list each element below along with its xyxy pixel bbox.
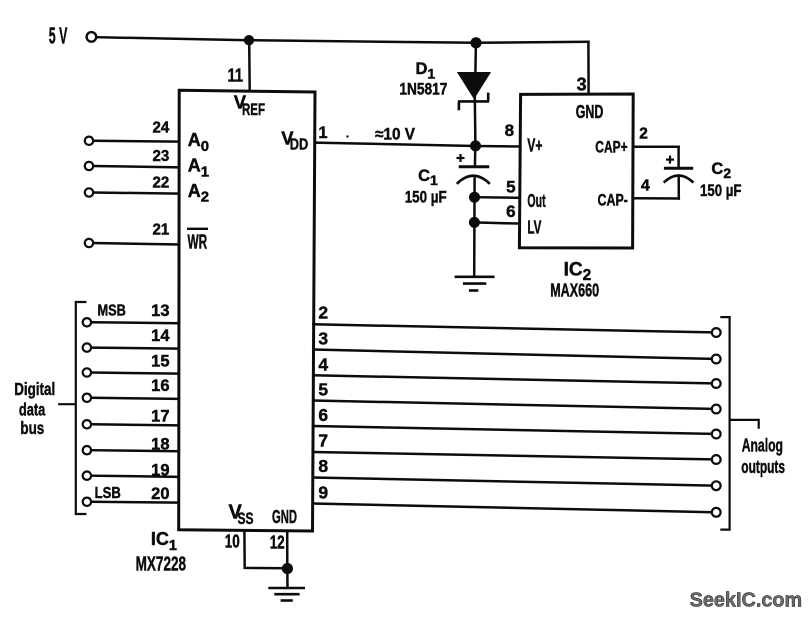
wire CAP- pin4 (633, 197, 679, 200)
svg-text:V+: V+ (527, 135, 542, 155)
junction dot 5V/pin11 (244, 35, 254, 45)
wire data bit pin15 (91, 373, 178, 374)
svg-text:2: 2 (318, 303, 328, 323)
svg-text:13: 13 (151, 302, 169, 320)
svg-text:Digital: Digital (14, 379, 55, 399)
svg-text:bus: bus (20, 418, 44, 438)
svg-text:5 V: 5 V (49, 23, 68, 49)
wire LV pin6 (474, 222, 519, 223)
terminal out4 (712, 379, 721, 388)
junction dot V+ node (470, 140, 481, 151)
wire 5V rail (97, 37, 589, 43)
wire data bit pin14 (91, 348, 178, 349)
svg-text:16: 16 (151, 377, 169, 395)
IC2 MAX660 body (519, 94, 633, 248)
svg-text:2: 2 (639, 125, 648, 142)
bracket digital bus (58, 302, 86, 514)
svg-text:14: 14 (151, 327, 170, 345)
wire input A0 pin24 (93, 140, 179, 143)
svg-text:7: 7 (318, 430, 328, 450)
svg-text:outputs: outputs (741, 457, 785, 477)
svg-text:DD: DD (290, 136, 309, 153)
wire C1 bottom lead (473, 179, 476, 277)
svg-text:150 µF: 150 µF (700, 182, 742, 200)
diode D1 schottky bar (458, 93, 489, 111)
terminal bit16 (83, 394, 91, 402)
wire VSS pin10 (244, 531, 287, 568)
svg-text:5: 5 (318, 380, 328, 400)
diode D1 triangle (457, 72, 491, 99)
terminal bit13 (83, 318, 91, 326)
ground under IC1 pin12 (268, 588, 305, 601)
svg-text:REF: REF (242, 101, 265, 119)
svg-text:1N5817: 1N5817 (399, 80, 447, 98)
terminal A0 (85, 137, 93, 145)
C1 plus sign (457, 154, 465, 162)
wire IC2 pin3 vertical (587, 42, 590, 95)
artifact dot (346, 135, 348, 137)
svg-text:data: data (19, 400, 46, 420)
svg-text:MAX660: MAX660 (550, 280, 599, 301)
svg-text:8: 8 (318, 456, 328, 476)
wire diode cathode stem (474, 96, 477, 146)
svg-text:SS: SS (238, 510, 254, 528)
wire C2 bottom lead (677, 178, 680, 199)
svg-text:20: 20 (151, 485, 169, 503)
terminal out6 (712, 430, 721, 439)
wire output pin8 (313, 478, 712, 486)
wire data bit pin13 (91, 321, 178, 324)
wire CAP+ pin2 (633, 146, 678, 149)
terminal WR (85, 239, 93, 247)
bracket analog outputs (720, 317, 758, 529)
wire C2 top lead (677, 147, 680, 169)
terminal out3 (712, 355, 721, 364)
junction dot pin12 ground (282, 563, 293, 574)
svg-text:8: 8 (505, 121, 514, 140)
svg-text:LSB: LSB (95, 485, 121, 502)
svg-text:Out: Out (527, 191, 545, 211)
terminal out7 (712, 455, 721, 464)
wire data bit pin17 (91, 424, 178, 425)
wire data bit pin20 (91, 501, 178, 504)
junction dot 5V/diode (470, 37, 481, 48)
svg-text:10: 10 (225, 532, 240, 552)
svg-text:MSB: MSB (98, 302, 126, 319)
svg-text:1: 1 (318, 124, 327, 142)
wire IC1 pin11 vertical (248, 40, 251, 90)
svg-text:CAP-: CAP- (598, 192, 628, 210)
svg-text:5: 5 (506, 177, 515, 196)
junction dot LV node (469, 217, 480, 228)
wire output pin5 (313, 401, 712, 409)
svg-text:4: 4 (318, 354, 328, 374)
svg-text:23: 23 (153, 148, 170, 165)
svg-text:≈10 V: ≈10 V (375, 126, 415, 144)
svg-text:WR: WR (188, 232, 208, 254)
wire output pin3 (313, 350, 712, 359)
terminal bit20 (83, 498, 91, 506)
svg-text:6: 6 (506, 202, 515, 221)
capacitor C2 plates (664, 168, 694, 182)
terminal bit18 (83, 446, 91, 454)
svg-text:3: 3 (318, 329, 328, 349)
svg-text:18: 18 (151, 436, 169, 454)
terminal bit19 (83, 472, 91, 480)
wire data bit pin16 (91, 398, 178, 399)
ground under C1 (455, 277, 495, 291)
wire output pin2 (313, 324, 712, 332)
terminal A1 (85, 162, 93, 170)
wire output pin7 (313, 452, 712, 459)
C2 plus sign (666, 156, 674, 164)
wire input A1 pin23 (93, 166, 179, 167)
svg-text:150 µF: 150 µF (405, 188, 447, 206)
wire GND pin12 (286, 531, 289, 568)
wire data bit pin19 (91, 476, 178, 477)
svg-text:CAP+: CAP+ (595, 137, 627, 156)
terminal out2 (712, 328, 721, 337)
terminal bit17 (83, 420, 91, 428)
svg-text:6: 6 (318, 405, 328, 425)
terminal 5V (87, 32, 97, 42)
wire output pin6 (313, 426, 712, 434)
IC1 MX7228 body (179, 90, 315, 531)
wire diode anode stem (474, 43, 477, 73)
junction dot Out node (469, 192, 480, 203)
svg-text:21: 21 (153, 222, 170, 239)
wire input A2 pin22 (93, 193, 179, 194)
terminal out8 (712, 481, 721, 490)
terminal out5 (712, 405, 721, 414)
svg-text:12: 12 (270, 533, 285, 553)
wire data bit pin18 (91, 450, 178, 451)
svg-text:19: 19 (151, 462, 169, 480)
svg-text:MX7228: MX7228 (136, 553, 187, 575)
svg-text:17: 17 (151, 407, 169, 425)
terminal A2 (85, 188, 93, 196)
svg-text:Analog: Analog (742, 434, 783, 455)
wire output pin4 (313, 375, 712, 383)
svg-text:9: 9 (318, 483, 328, 503)
svg-text:11: 11 (228, 65, 244, 85)
svg-text:4: 4 (641, 177, 650, 194)
svg-text:3: 3 (577, 75, 587, 95)
wire Out pin5 (475, 196, 520, 199)
svg-text:24: 24 (153, 120, 170, 137)
terminal bit15 (83, 368, 91, 376)
wire output pin9 (313, 504, 712, 513)
terminal bit14 (83, 343, 91, 351)
capacitor C1 plates (457, 167, 490, 184)
svg-text:15: 15 (151, 352, 169, 370)
svg-text:SeekIC.com: SeekIC.com (690, 589, 803, 612)
svg-text:22: 22 (153, 174, 170, 191)
wire V+ pin8 / pin1 net (315, 143, 520, 147)
terminal out9 (712, 508, 721, 517)
svg-text:GND: GND (576, 102, 604, 122)
wire C1 top lead (474, 146, 477, 167)
wire input WR pin21 (93, 243, 179, 245)
svg-text:LV: LV (527, 217, 541, 237)
svg-text:GND: GND (272, 506, 297, 527)
